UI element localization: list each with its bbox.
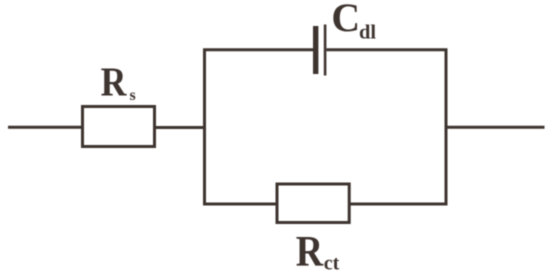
svg-text:dl: dl [359,22,376,44]
svg-text:s: s [130,87,136,104]
svg-text:R: R [296,227,324,275]
svg-text:C: C [331,0,360,40]
svg-text:R: R [101,60,128,105]
svg-text:ct: ct [324,253,340,275]
